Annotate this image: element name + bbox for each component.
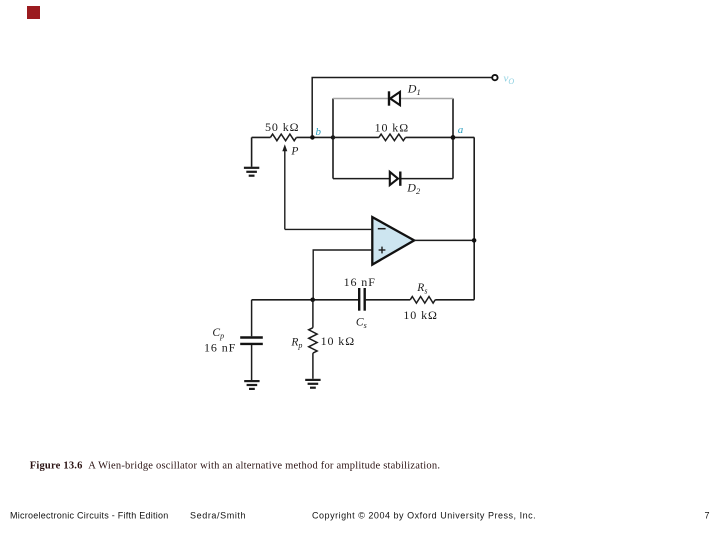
svg-text:10 kΩ: 10 kΩ (403, 308, 437, 322)
svg-text:Sedra/Smith: Sedra/Smith (190, 511, 246, 521)
svg-text:10 kΩ: 10 kΩ (375, 120, 409, 134)
wire ground to potentiometer (252, 136, 271, 138)
wire node b to 10k (333, 136, 379, 138)
svg-text:16 nF: 16 nF (344, 275, 376, 289)
resistor Rs zigzag (410, 297, 435, 304)
wiper arrow P (284, 150, 286, 230)
svg-text:10 kΩ: 10 kΩ (321, 334, 355, 348)
node b dot (310, 135, 315, 140)
parallel box right vertical wire (452, 99, 454, 179)
wire top feedback from node b to output terminal (312, 78, 492, 138)
ground (Cp) (244, 381, 259, 389)
output terminal circle (492, 75, 497, 80)
svg-text:Cp: Cp (212, 327, 224, 341)
parallel box left vertical wire (332, 99, 334, 179)
svg-text:50 kΩ: 50 kΩ (265, 120, 299, 134)
inverting input wire (285, 228, 373, 230)
svg-text:b: b (316, 126, 322, 138)
resistor Rp (312, 300, 314, 328)
svg-text:7: 7 (705, 511, 710, 521)
svg-text:P: P (290, 145, 298, 157)
svg-text:Copyright © 2004 by Oxford Uni: Copyright © 2004 by Oxford University Pr… (312, 511, 536, 521)
slide corner marker (27, 6, 40, 19)
diode D1 (points left) (389, 91, 400, 105)
minus sign (378, 228, 386, 230)
D1 branch wire (gray) (333, 98, 388, 100)
ground (Rp) (305, 380, 320, 388)
op-amp U1 (372, 217, 414, 265)
output junction dot (472, 238, 477, 243)
svg-text:vO: vO (504, 73, 515, 87)
svg-text:D1: D1 (407, 81, 421, 97)
junction dot (+ input / Rp / Cs) (310, 298, 315, 303)
bottom wire right segment (435, 299, 474, 301)
capacitor Cs plates (359, 288, 365, 311)
bottom wire left segment (252, 299, 358, 301)
resistor 10k (mid branch) (379, 134, 406, 141)
D2 branch wire (333, 178, 390, 180)
svg-text:Cs: Cs (356, 316, 367, 330)
junction dot b-branch (331, 135, 335, 139)
diode D2 (points right) (390, 172, 401, 186)
svg-text:a: a (458, 124, 464, 136)
wire 10k to node a (406, 136, 475, 138)
capacitor Cp (251, 300, 253, 337)
svg-text:Rs: Rs (416, 282, 427, 296)
wire pot to node b (296, 136, 333, 138)
wire node a down right side to bottom (473, 137, 475, 299)
svg-text:Microelectronic Circuits - Fif: Microelectronic Circuits - Fifth Edition (10, 511, 169, 521)
svg-text:Figure 13.6 A Wien-bridge osc: Figure 13.6 A Wien-bridge oscillator wit… (30, 461, 441, 472)
output wire (414, 239, 474, 241)
svg-text:D2: D2 (406, 181, 421, 197)
plus sign (379, 247, 386, 254)
potentiometer 50k zigzag (270, 134, 296, 141)
svg-text:16 nF: 16 nF (204, 340, 236, 354)
ground (pot left) (244, 137, 259, 175)
bottom wire mid segment (365, 299, 411, 301)
svg-text:Rp: Rp (290, 336, 302, 350)
node a dot (451, 135, 456, 140)
noninverting input wire (313, 250, 372, 300)
